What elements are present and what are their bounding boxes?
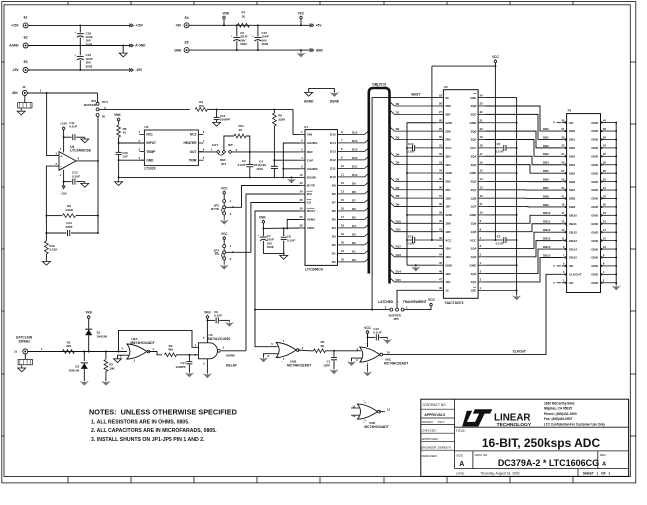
svg-text:×: × <box>553 121 555 125</box>
wire U6B pin6 to ground <box>264 354 278 358</box>
svg-text:DB11: DB11 <box>569 222 577 226</box>
svg-text:E3: E3 <box>24 60 28 64</box>
capacitor C13 0.1UF <box>412 145 414 151</box>
svg-text:D5: D5 <box>352 215 356 219</box>
svg-text:3. INSTALL SHUNTS ON JP1-JP5: 3. INSTALL SHUNTS ON JP1-JP5 PIN 1 AND 2… <box>91 437 205 443</box>
svg-text:A: A <box>602 461 606 467</box>
svg-text:1630 McCarthy Blvd.: 1630 McCarthy Blvd. <box>544 401 575 405</box>
svg-text:J2: J2 <box>22 85 26 89</box>
svg-text:MC74HC02ADT: MC74HC02ADT <box>384 361 408 365</box>
ground gray at U2 right GND rail <box>512 296 521 301</box>
ground at C9 <box>228 320 230 322</box>
svg-text:D8: D8 <box>332 192 336 196</box>
svg-text:A GND: A GND <box>135 44 146 48</box>
svg-text:VCC: VCC <box>221 232 228 236</box>
svg-text:0.1UF: 0.1UF <box>407 150 415 154</box>
wire E3 to -15V off-page <box>28 69 130 71</box>
svg-text:26: 26 <box>603 177 606 181</box>
svg-text:1210: 1210 <box>256 167 263 171</box>
svg-text:DB[15:0]: DB[15:0] <box>372 83 386 87</box>
svg-text:2Q3: 2Q3 <box>471 163 477 167</box>
svg-text:6032: 6032 <box>240 42 247 46</box>
svg-text:2Q4: 2Q4 <box>471 154 477 158</box>
svg-text:2D5: 2D5 <box>445 138 451 142</box>
svg-text:2D4: 2D4 <box>445 154 451 158</box>
svg-text:18: 18 <box>603 211 606 215</box>
svg-text:CONTRACT NO.: CONTRACT NO. <box>422 403 446 407</box>
capacitor C2 2.2UF <box>249 152 251 164</box>
svg-text:23: 23 <box>480 102 483 106</box>
NAND gate U3 SN74LVC1G00 <box>199 343 218 359</box>
svg-text:332K: 332K <box>278 117 286 121</box>
svg-text:DWG NO.: DWG NO. <box>475 453 489 457</box>
svg-text:2Q7: 2Q7 <box>471 113 477 117</box>
svg-text:GND: GND <box>470 213 478 217</box>
wire U3 pin3 to ground <box>206 359 208 373</box>
svg-text:20: 20 <box>603 203 606 207</box>
svg-text:DB5: DB5 <box>569 171 575 175</box>
svg-text:16-BIT, 250ksps ADC: 16-BIT, 250ksps ADC <box>482 436 601 450</box>
svg-text:GND: GND <box>591 214 599 218</box>
svg-text:DC379A-2 * LTC1606CG: DC379A-2 * LTC1606CG <box>498 458 599 468</box>
svg-text:27: 27 <box>439 110 442 114</box>
resistor R8 43 <box>118 121 120 125</box>
resistor R4 200 <box>195 108 207 112</box>
svg-text:1D7: 1D7 <box>445 205 451 209</box>
wire U1 BUSY net <box>255 211 300 310</box>
svg-text:D11: D11 <box>330 167 336 171</box>
ground AGND symbol <box>305 92 313 96</box>
svg-text:DB9: DB9 <box>543 203 549 207</box>
svg-text:32: 32 <box>603 152 606 156</box>
svg-text:46: 46 <box>439 269 442 273</box>
resistor R6 5K <box>310 350 314 352</box>
svg-text:GND: GND <box>591 188 599 192</box>
wire AGND1/AGND2 to rail <box>283 143 300 177</box>
svg-text:18: 18 <box>341 224 344 228</box>
wire U6A output to R3 <box>148 352 162 355</box>
svg-text:MC74HC02ADT: MC74HC02ADT <box>364 425 388 429</box>
svg-text:TITLE:: TITLE: <box>456 429 466 433</box>
svg-text:SN74LVC1G00: SN74LVC1G00 <box>208 337 231 341</box>
turret E5 GND <box>184 48 189 53</box>
svg-text:35: 35 <box>561 135 564 139</box>
NOR gate U6C MC74HC02ADT <box>360 347 380 362</box>
svg-text:25: 25 <box>300 198 303 202</box>
svg-text:BUSY: BUSY <box>412 92 422 96</box>
svg-text:GND: GND <box>591 155 599 159</box>
svg-text:D1: D1 <box>396 110 400 114</box>
turret E4 +5V <box>184 23 189 28</box>
svg-text:GND: GND <box>591 197 599 201</box>
svg-text:D3: D3 <box>332 235 336 239</box>
svg-text:40: 40 <box>439 219 442 223</box>
wire U6C pin9 to ground <box>352 358 362 361</box>
wire JP5 center to U2 1C <box>397 290 436 308</box>
svg-text:D15: D15 <box>396 278 402 282</box>
capacitor C1 15PF <box>333 351 335 357</box>
svg-text:12: 12 <box>341 181 344 185</box>
svg-text:E4: E4 <box>185 16 189 20</box>
svg-text:32: 32 <box>439 152 442 156</box>
svg-text:GND: GND <box>591 121 599 125</box>
svg-text:28: 28 <box>300 224 303 228</box>
ground AGND at rail start <box>118 177 120 181</box>
svg-text:REF: REF <box>307 150 313 154</box>
svg-text:AGND: AGND <box>304 99 314 103</box>
svg-text:10: 10 <box>603 245 606 249</box>
svg-text:GND: GND <box>470 263 478 267</box>
jumper JP3 CS <box>223 245 226 248</box>
ground at C10 <box>386 337 388 339</box>
svg-text:DELAY: DELAY <box>226 363 238 367</box>
svg-text:VCC: VCC <box>470 238 477 242</box>
svg-text:VANA: VANA <box>307 218 316 222</box>
svg-text:+15V: +15V <box>11 24 19 28</box>
svg-text:2Q1: 2Q1 <box>471 188 477 192</box>
svg-text:DB15: DB15 <box>569 256 577 260</box>
svg-text:10: 10 <box>387 350 391 354</box>
svg-text:D6: D6 <box>396 177 400 181</box>
wire JP4 pin2 to R4 <box>99 108 190 110</box>
svg-text:+15V: +15V <box>135 24 143 28</box>
svg-text:2Q2: 2Q2 <box>471 180 477 184</box>
svg-text:15PF: 15PF <box>323 364 330 368</box>
svg-text:GND: GND <box>591 222 599 226</box>
svg-text:OUT: OUT <box>102 100 109 104</box>
svg-text:1000PF: 1000PF <box>175 365 186 369</box>
turret E1 +15V <box>23 23 28 28</box>
svg-text:DB2: DB2 <box>569 146 575 150</box>
svg-text:DB15: DB15 <box>543 253 551 257</box>
svg-text:2.21K: 2.21K <box>49 248 58 252</box>
svg-text:JP1: JP1 <box>221 162 227 166</box>
IC U1 LTC1606CG ADC <box>305 130 338 266</box>
svg-text:AGND2: AGND2 <box>307 167 318 171</box>
wire JP1 to U1 REF pin <box>232 151 300 153</box>
svg-text:D4: D4 <box>332 226 336 230</box>
ground at J2 shield <box>20 108 22 111</box>
svg-text:14: 14 <box>603 228 606 232</box>
svg-text:D12: D12 <box>330 158 336 162</box>
wire BUSY line to JP5 <box>255 309 390 311</box>
svg-text:VCC: VCC <box>298 11 305 15</box>
svg-text:40: 40 <box>603 118 606 122</box>
off-page connector +5V <box>310 24 312 27</box>
ground GND gray at E5 rail <box>300 49 302 51</box>
svg-text:C5: C5 <box>497 142 501 146</box>
connector P1 header <box>567 114 601 293</box>
svg-text:D1: D1 <box>332 252 336 256</box>
left GND rail of U2 <box>407 123 436 265</box>
svg-text:EXT: EXT <box>212 143 218 147</box>
svg-text:21: 21 <box>341 249 344 253</box>
svg-text:28: 28 <box>439 118 442 122</box>
svg-text:LTC1468CS8: LTC1468CS8 <box>70 149 91 153</box>
svg-text:GND: GND <box>445 263 453 267</box>
svg-text:C3: C3 <box>497 234 501 238</box>
wire BUSY to U2 2C <box>372 98 436 310</box>
resistor R2 10K <box>105 352 107 360</box>
svg-text:1D1: 1D1 <box>445 280 451 284</box>
svg-text:31: 31 <box>561 152 564 156</box>
capacitor C8 0.1UF <box>283 227 285 229</box>
ground DGND at U1 pin16 <box>291 176 293 178</box>
svg-text:DB14: DB14 <box>569 247 577 251</box>
svg-text:19: 19 <box>561 203 564 207</box>
svg-text:11: 11 <box>562 236 565 240</box>
svg-text:D1: D1 <box>352 249 356 253</box>
date and sheet <box>577 469 579 477</box>
svg-text:MC74HC02ADT: MC74HC02ADT <box>130 341 154 345</box>
wire U5 GND pin <box>119 159 145 161</box>
ground at JP2 <box>223 215 225 220</box>
Linear Technology logo <box>462 409 492 426</box>
wire J2 node down to op-amp +input <box>47 93 59 155</box>
wire output node down <box>97 161 99 233</box>
svg-text:×: × <box>553 281 555 285</box>
wire CAP pin to C4 <box>274 159 300 161</box>
svg-text:VCC: VCC <box>445 238 452 242</box>
svg-text:Phone: (408)432-1900: Phone: (408)432-1900 <box>544 412 577 416</box>
svg-text:D10: D10 <box>352 173 358 177</box>
svg-text:20: 20 <box>242 14 246 18</box>
svg-text:CAP: CAP <box>307 158 314 162</box>
svg-text:Fax: (408)434-0507: Fax: (408)434-0507 <box>544 417 573 421</box>
svg-text:TECHNOLOGY: TECHNOLOGY <box>497 422 532 428</box>
svg-text:BUFFER: BUFFER <box>84 103 97 107</box>
svg-text:AGND1: AGND1 <box>307 141 318 145</box>
svg-text:1Q8: 1Q8 <box>471 196 477 200</box>
svg-text:1Q5: 1Q5 <box>471 230 477 234</box>
svg-text:CLKOUT: CLKOUT <box>569 273 582 277</box>
svg-text:D14: D14 <box>330 141 336 145</box>
svg-text:4.99K: 4.99K <box>65 208 74 212</box>
svg-text:AIN: AIN <box>12 91 18 95</box>
svg-text:30: 30 <box>603 161 606 165</box>
svg-text:DB7: DB7 <box>569 188 575 192</box>
svg-text:VNK: VNK <box>222 11 229 15</box>
svg-text:19: 19 <box>480 135 483 139</box>
capacitor C15 10UF <box>257 25 259 36</box>
svg-text:17: 17 <box>480 152 483 156</box>
svg-text:REV: REV <box>600 453 606 457</box>
svg-text:R/C: R/C <box>307 192 313 196</box>
capacitor C7 10UF <box>262 228 264 236</box>
off-page connector +15V <box>129 24 131 27</box>
svg-text:INPUT: INPUT <box>146 141 156 145</box>
svg-text:DB12: DB12 <box>569 230 577 234</box>
svg-text:25: 25 <box>439 93 442 97</box>
svg-text:43: 43 <box>123 131 127 135</box>
svg-text:VNK: VNK <box>114 113 121 117</box>
wire U6A pin3 to ground <box>118 355 129 359</box>
svg-text:DB13: DB13 <box>569 239 577 243</box>
svg-text:D8: D8 <box>396 194 400 198</box>
supply VCC at JP5 <box>404 306 431 310</box>
svg-text:−: − <box>60 165 62 169</box>
svg-text:2D3: 2D3 <box>445 163 451 167</box>
svg-text:DGND: DGND <box>330 99 340 103</box>
svg-text:47: 47 <box>439 278 442 282</box>
svg-text:2D8: 2D8 <box>445 104 451 108</box>
svg-text:3528: 3528 <box>267 245 274 249</box>
svg-text:22: 22 <box>603 194 606 198</box>
svg-text:17: 17 <box>341 215 344 219</box>
turret E3 -15V <box>23 68 28 73</box>
svg-text:1N4148: 1N4148 <box>69 368 80 372</box>
svg-text:36: 36 <box>439 185 442 189</box>
svg-text:DB4: DB4 <box>569 163 575 167</box>
svg-text:44: 44 <box>439 253 442 257</box>
wire op-amp pin4 to -15V <box>63 170 65 182</box>
svg-text:CLKOUT: CLKOUT <box>513 350 526 354</box>
svg-text:15: 15 <box>480 169 483 173</box>
svg-text:3528: 3528 <box>86 42 93 46</box>
svg-text:DB8: DB8 <box>569 197 575 201</box>
svg-text:36: 36 <box>603 135 606 139</box>
svg-text:14: 14 <box>480 177 483 181</box>
svg-text:DB6: DB6 <box>569 180 575 184</box>
svg-text:D10: D10 <box>330 175 336 179</box>
svg-text:DB1: DB1 <box>569 138 575 142</box>
no-connect marks on P1 NC pins <box>557 122 561 124</box>
svg-text:A: A <box>459 461 464 468</box>
svg-text:VCC: VCC <box>428 298 435 302</box>
ground AGND at E2 rail <box>122 46 124 54</box>
svg-text:U1: U1 <box>304 125 308 129</box>
svg-text:1OE: 1OE <box>470 289 476 293</box>
svg-text:18: 18 <box>480 144 483 148</box>
svg-text:D15: D15 <box>352 130 358 134</box>
svg-text:1D3: 1D3 <box>445 255 451 259</box>
svg-text:21: 21 <box>480 118 483 122</box>
svg-text:DB12: DB12 <box>543 228 551 232</box>
svg-text:22: 22 <box>480 110 483 114</box>
ground at C16 <box>213 122 221 126</box>
ground at JP3 <box>223 260 225 265</box>
svg-text:GND: GND <box>445 171 453 175</box>
svg-text:23: 23 <box>300 181 303 185</box>
svg-text:41: 41 <box>439 227 442 231</box>
svg-text:+15V: +15V <box>60 122 67 126</box>
svg-text:2Q6: 2Q6 <box>471 129 477 133</box>
turret E2 AGND <box>23 43 28 48</box>
svg-text:1D8: 1D8 <box>445 196 451 200</box>
capacitor C5 0.1UF <box>485 147 503 149</box>
svg-text:VKK: VKK <box>85 310 92 314</box>
svg-text:D2: D2 <box>396 127 400 131</box>
svg-text:D7: D7 <box>352 198 356 202</box>
svg-text:D13: D13 <box>396 253 402 257</box>
svg-text:-15V: -15V <box>135 68 143 72</box>
diode D2 1N4148 <box>83 352 85 362</box>
svg-text:16: 16 <box>603 220 606 224</box>
svg-text:26: 26 <box>439 102 442 106</box>
diode D1 1N4148 <box>88 335 90 351</box>
svg-text:P1: P1 <box>568 108 572 112</box>
svg-text:1UF: 1UF <box>122 155 128 159</box>
svg-text:D0: D0 <box>396 102 400 106</box>
svg-text:16: 16 <box>341 207 344 211</box>
svg-text:Thursday, August 01, 2002: Thursday, August 01, 2002 <box>480 472 519 476</box>
svg-text:GND: GND <box>591 264 599 268</box>
svg-text:SIZE: SIZE <box>456 453 463 457</box>
ground at R10 <box>42 261 50 265</box>
svg-text:D5: D5 <box>396 161 400 165</box>
svg-text:TEMP: TEMP <box>146 150 156 154</box>
ground at C17 <box>185 373 194 378</box>
svg-text:CS: CS <box>215 252 219 256</box>
bus entries D0-D15 into U2 <box>391 103 395 106</box>
svg-text:D12: D12 <box>352 156 358 160</box>
svg-text:35: 35 <box>439 177 442 181</box>
svg-text:1Q7: 1Q7 <box>471 205 477 209</box>
svg-text:DB4: DB4 <box>543 161 549 165</box>
wire BUSY to U6B pin5 <box>255 310 278 347</box>
svg-text:D11: D11 <box>396 228 402 232</box>
svg-text:0.1UF: 0.1UF <box>496 242 504 246</box>
wire J2 to JP4 OUT <box>27 92 97 94</box>
svg-text:D13: D13 <box>352 147 358 151</box>
wire U6B output to R6 <box>298 349 310 352</box>
wires U2 outputs to P1 DB0-DB15 <box>485 106 561 131</box>
wire E5 rail to GND off-page <box>189 49 310 51</box>
svg-text:IN: IN <box>102 115 105 119</box>
svg-text:SHEET 1 OF 1: SHEET 1 OF 1 <box>583 471 611 475</box>
resistor R1 499 <box>63 350 75 354</box>
svg-text:GND: GND <box>174 48 182 52</box>
svg-text:11: 11 <box>480 202 483 206</box>
svg-text:DB13: DB13 <box>543 237 551 241</box>
svg-text:TRANSPARENT: TRANSPARENT <box>403 300 427 304</box>
bus DB[15:0] <box>369 88 390 284</box>
svg-text:DB3: DB3 <box>569 155 575 159</box>
svg-text:2D1: 2D1 <box>445 188 451 192</box>
svg-text:DATE:: DATE: <box>456 471 465 475</box>
svg-text:D10: D10 <box>396 219 402 223</box>
svg-text:INT: INT <box>228 143 233 147</box>
capacitor C18 <box>79 25 81 32</box>
svg-text:12: 12 <box>480 194 483 198</box>
svg-text:0.1UF: 0.1UF <box>69 125 77 129</box>
svg-text:45: 45 <box>439 261 442 265</box>
svg-text:GND: GND <box>591 180 599 184</box>
wire E2 to A GND off-page <box>28 45 130 47</box>
svg-text:D6: D6 <box>352 207 356 211</box>
resistor R10 2.21K <box>45 233 47 241</box>
supply VKK at D1 <box>87 316 90 319</box>
svg-text:U2: U2 <box>444 85 448 89</box>
NOR gate U6D MC74HC02ADT spare <box>358 404 378 419</box>
svg-text:LT1019: LT1019 <box>144 167 155 171</box>
svg-text:29: 29 <box>561 161 564 165</box>
svg-text:DB0: DB0 <box>569 129 575 133</box>
connector J2 AIN <box>22 91 27 96</box>
svg-text:DB1: DB1 <box>543 135 549 139</box>
svg-text:22: 22 <box>341 258 344 262</box>
svg-text:0.1UF: 0.1UF <box>214 314 222 318</box>
svg-text:0.1UF: 0.1UF <box>407 242 415 246</box>
off-page connector -15V <box>129 68 131 71</box>
svg-text:0.1UF: 0.1UF <box>72 174 80 178</box>
svg-text:D4: D4 <box>396 152 400 156</box>
svg-text:DB2: DB2 <box>543 144 549 148</box>
wire to analog ground rail <box>118 160 120 177</box>
svg-text:0.1UF: 0.1UF <box>373 331 381 335</box>
capacitor C9 0.1UF <box>207 319 215 321</box>
wire E1 to +15V off-page <box>28 24 130 26</box>
